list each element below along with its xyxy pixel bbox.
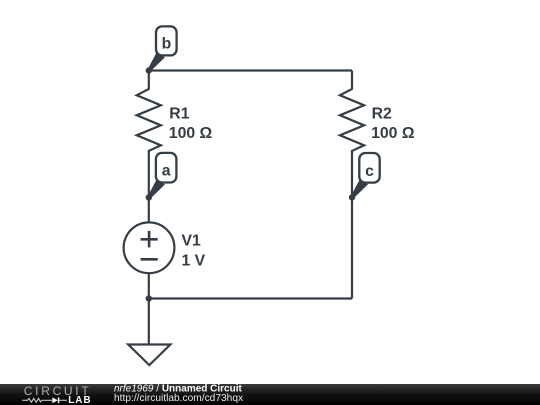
svg-text:a: a	[162, 163, 171, 180]
svg-text:R2: R2	[372, 105, 392, 122]
junction dot bottom	[146, 295, 152, 301]
svg-text:100 Ω: 100 Ω	[371, 125, 415, 142]
footer url text	[114, 393, 243, 404]
svg-text:R1: R1	[169, 105, 189, 122]
svg-text:100 Ω: 100 Ω	[169, 125, 213, 142]
resistor R1	[137, 71, 213, 198]
wire ground lead	[148, 299, 150, 345]
svg-text:b: b	[162, 36, 172, 53]
svg-text:LAB: LAB	[68, 395, 91, 405]
wire top horizontal b to R2	[149, 69, 352, 71]
logo CIRCUIT text	[24, 384, 92, 398]
wire right vertical node c to bottom	[351, 197, 353, 298]
logo diode	[52, 397, 67, 403]
voltage source V1	[124, 198, 206, 299]
footer bar	[0, 384, 540, 405]
logo resistor zigzag	[22, 398, 52, 402]
resistor R2	[340, 71, 415, 198]
node a	[146, 153, 177, 201]
svg-text:http://circuitlab.com/cd73hqx: http://circuitlab.com/cd73hqx	[114, 393, 243, 404]
ground	[128, 345, 170, 366]
svg-text:c: c	[365, 163, 374, 180]
node c	[349, 153, 380, 201]
svg-text:1 V: 1 V	[182, 253, 206, 270]
node b	[146, 26, 177, 73]
footer title text	[114, 384, 243, 395]
svg-text:V1: V1	[182, 233, 202, 250]
wire bottom horizontal	[149, 297, 352, 299]
logo LAB text	[68, 395, 91, 405]
